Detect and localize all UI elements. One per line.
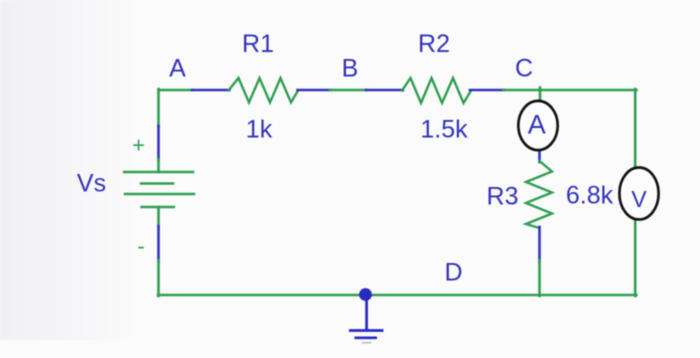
ground junction dot	[359, 288, 372, 301]
resistor R3	[526, 161, 552, 228]
svg-text:Vs: Vs	[77, 170, 106, 198]
ground bar 2	[355, 336, 378, 339]
ground stem	[365, 295, 368, 331]
svg-text:A: A	[169, 55, 186, 83]
battery Vs plate 1 long	[124, 171, 193, 173]
battery plate 3 long	[125, 193, 194, 195]
svg-text:1k: 1k	[246, 116, 273, 144]
wire R2 right lead	[470, 89, 504, 92]
svg-text:R1: R1	[242, 30, 274, 58]
battery bottom lead	[157, 226, 160, 261]
svg-text:C: C	[515, 55, 533, 83]
resistor R1	[229, 78, 299, 103]
ammeter bottom lead	[538, 149, 541, 162]
wire left vertical bottom	[157, 260, 160, 296]
svg-text:B: B	[342, 55, 359, 83]
wire bottom	[158, 294, 636, 297]
wire C stub down to ammeter	[539, 88, 542, 103]
ground bar 3	[362, 342, 371, 344]
svg-text:A: A	[528, 110, 546, 140]
wire R1 left lead	[192, 89, 230, 92]
svg-text:V: V	[631, 186, 647, 212]
wire A to R1	[159, 89, 194, 92]
wire C to top-right corner	[503, 89, 636, 92]
battery top stub	[157, 159, 160, 172]
svg-text:1.5k: 1.5k	[420, 116, 468, 144]
battery plate 4 short	[142, 206, 175, 208]
battery bottom stub	[157, 207, 160, 227]
wire R1 right lead	[298, 89, 332, 92]
svg-text:-: -	[137, 234, 144, 259]
svg-text:D: D	[444, 259, 462, 287]
svg-text:R2: R2	[418, 30, 450, 58]
ground bar 1	[349, 329, 384, 332]
resistor R3 bottom lead	[538, 227, 541, 261]
resistor R2	[402, 78, 471, 103]
voltmeter V1 ellipse	[619, 168, 658, 220]
svg-text:+: +	[132, 133, 145, 158]
ammeter U1 ellipse	[518, 101, 557, 150]
battery plate 2 short	[141, 182, 173, 184]
wire node B segment	[330, 89, 367, 92]
battery top lead	[157, 126, 160, 160]
wire R3 to bottom node D	[538, 260, 541, 296]
svg-text:6.8k: 6.8k	[566, 182, 614, 210]
svg-text:R3: R3	[487, 183, 519, 211]
wire left vertical top	[157, 89, 160, 127]
wire R2 left lead	[366, 89, 403, 92]
wire right side vertical	[634, 89, 637, 296]
